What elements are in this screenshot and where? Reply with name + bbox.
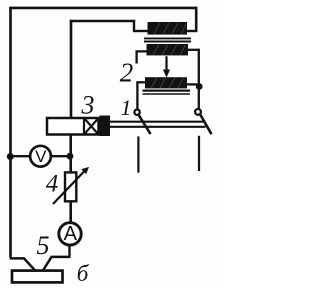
block 3: shunt body (white rectangle) (47, 118, 99, 135)
voltmeter V (30, 146, 51, 167)
transformer secondary winding W2 (hatched bar) (147, 44, 189, 55)
wire: top outer horizontal (9, 7, 197, 10)
arrow: regulator adjustment arrow pointing into choke W3 (163, 56, 170, 77)
wire: W2 right lead (187, 49, 199, 51)
svg-text:V: V (35, 147, 47, 166)
wire: left vertical main conductor (9, 7, 12, 258)
transformer core: two lines between W1 and W2 (144, 38, 191, 41)
block 3: black connector box (100, 116, 111, 137)
node: junction dot at center conductor (67, 153, 74, 160)
wire: center vertical from inner top wire down to block 3 (70, 20, 73, 119)
choke regulator winding W3 (hatched bar), item 2 (145, 77, 187, 88)
svg-text:2: 2 (120, 58, 134, 88)
wire: inner vertical jog at x=134 (133, 20, 135, 31)
wire: right supply stub below switch (198, 136, 200, 171)
wire: vertical below ammeter (68, 246, 70, 256)
wire: W2 left lead with short stub down (137, 51, 148, 63)
workpiece plate 6 (12, 271, 63, 283)
choke core yoke: double line below W3 (143, 89, 191, 91)
electrode holder 5: left arm (10, 258, 37, 272)
wire: inner top horizontal (70, 20, 135, 23)
wire: W3 right lead (187, 83, 199, 85)
wire: voltmeter branch right segment (52, 155, 70, 157)
wire: left supply stub below switch (137, 136, 139, 172)
node: junction dot on left conductor (7, 153, 14, 160)
svg-text:A: A (64, 223, 78, 245)
electrode holder 5: right arm (42, 257, 71, 272)
svg-text:3: 3 (81, 91, 95, 120)
switch S1 left pole pivot (134, 110, 139, 115)
switch S1 left blade (139, 115, 151, 134)
wire: vertical from rheostat to ammeter (69, 201, 72, 222)
svg-text:4: 4 (46, 171, 59, 198)
wire: connector from W1 right end (187, 30, 198, 32)
wire: right vertical from W2 down to switch pole (198, 49, 200, 109)
transformer primary winding W1 (hatched bar) (148, 22, 188, 35)
wire: W3 left lead (137, 81, 146, 83)
switch S1 right blade (200, 115, 211, 135)
block 3: plug square with X (84, 118, 99, 135)
svg-text:5: 5 (37, 231, 50, 260)
wire: voltmeter branch left segment (10, 155, 29, 157)
rheostat 4 adjustment arrow (53, 167, 89, 204)
ammeter A (59, 223, 81, 245)
wire: right outer vertical (top corner down to winding W1) (195, 7, 198, 31)
wire: connector into W1 left end (133, 30, 149, 32)
wire: center vertical from block 3 down to rheostat (69, 135, 72, 173)
switch S1 right pole pivot (195, 109, 201, 115)
svg-text:б: б (77, 261, 90, 286)
node: junction dot right bus (196, 83, 203, 90)
wire: left switch pole riser (136, 81, 138, 109)
wire: twin line from connector to switch (110, 121, 206, 123)
svg-text:1: 1 (121, 95, 132, 120)
rheostat 4 body (65, 172, 76, 201)
